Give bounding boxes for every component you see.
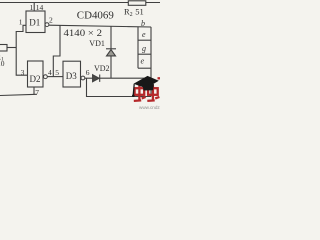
svg-text:1: 1 <box>19 17 23 26</box>
resistor R1 <box>0 45 7 52</box>
svg-text:10: 10 <box>0 59 5 68</box>
red fragment at top right edge <box>158 77 161 79</box>
wire VD1 branch lower <box>110 56 112 78</box>
wire right vertical rail <box>150 27 152 97</box>
wire D2 pin7 stub <box>33 87 35 95</box>
svg-text:4: 4 <box>48 68 52 77</box>
svg-text:VD1: VD1 <box>89 39 105 48</box>
D2 output bubble <box>44 75 48 79</box>
terminal ladder left rail <box>137 27 139 68</box>
svg-text:b: b <box>141 19 145 28</box>
svg-text:D1: D1 <box>29 18 40 28</box>
D1 output bubble <box>45 23 49 27</box>
svg-text:4140 × 2: 4140 × 2 <box>64 28 103 38</box>
svg-text:VD2: VD2 <box>94 64 110 73</box>
svg-text:3: 3 <box>21 68 25 77</box>
diode VD2 (pointing right, cathode bar at right) <box>93 75 100 82</box>
svg-text:www.cndzz.: www.cndzz. <box>139 105 160 110</box>
labels <box>0 3 146 97</box>
wire signal rail from D1 output to right <box>49 25 151 27</box>
svg-text:D2: D2 <box>30 74 41 84</box>
wire D3 output drop to bottom line <box>87 78 152 96</box>
wire D1 power stub (pins 1/14) <box>33 3 35 12</box>
wire drop from signal rail to D2out/D3in node <box>53 25 60 76</box>
tassel <box>133 84 135 95</box>
terminal ladder rung 3 <box>138 67 151 69</box>
inverter D1 <box>26 11 45 33</box>
svg-text:e: e <box>141 56 145 65</box>
wire top supply rail <box>0 2 160 4</box>
svg-text:7: 7 <box>35 88 39 97</box>
inverter D2 <box>28 61 44 87</box>
inverter D3 <box>63 61 81 87</box>
svg-text:g: g <box>142 44 146 53</box>
wire R1 to left rail <box>7 47 16 49</box>
D3 output bubble <box>81 76 85 80</box>
svg-text:6: 6 <box>86 68 90 77</box>
watermark: red characters (drawn strokes) <box>134 78 160 101</box>
terminal ladder rung 1 <box>138 39 151 41</box>
wire D1 input with jog down to left rail <box>16 25 27 75</box>
wire bottom left rail <box>0 94 37 95</box>
resistor R2 <box>128 1 146 6</box>
wire VD2 cathode to VD1 junction and right to rail <box>100 77 151 79</box>
svg-text:CD4069: CD4069 <box>77 11 114 22</box>
wire VD1 branch upper <box>110 26 112 49</box>
svg-text:1: 1 <box>30 3 34 12</box>
svg-text:D3: D3 <box>66 71 77 81</box>
svg-text:14: 14 <box>36 3 44 12</box>
svg-text:51: 51 <box>135 6 144 16</box>
diode VD1 (pointing up, cathode bar on top) <box>106 49 116 56</box>
svg-text:2: 2 <box>49 16 53 25</box>
svg-text:5: 5 <box>55 68 59 77</box>
cap base <box>143 84 155 91</box>
watermark: graduation cap logo <box>132 76 159 97</box>
svg-text:e: e <box>142 30 146 39</box>
cap board (tilted parallelogram) <box>134 76 159 88</box>
wire D2 output to D3 input <box>47 76 63 78</box>
terminal ladder rung 2 <box>138 53 151 55</box>
wire D3 output to VD2 <box>85 77 93 79</box>
